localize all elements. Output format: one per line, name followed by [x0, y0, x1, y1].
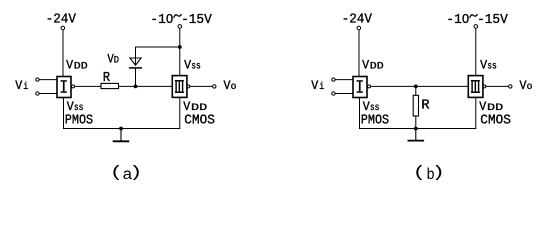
svg-text:D: D	[114, 55, 119, 67]
svg-text:): )	[129, 164, 143, 182]
svg-text:(: (	[110, 164, 124, 182]
svg-text:): )	[432, 164, 446, 182]
svg-text:(: (	[413, 164, 427, 182]
svg-text:R: R	[421, 98, 430, 114]
